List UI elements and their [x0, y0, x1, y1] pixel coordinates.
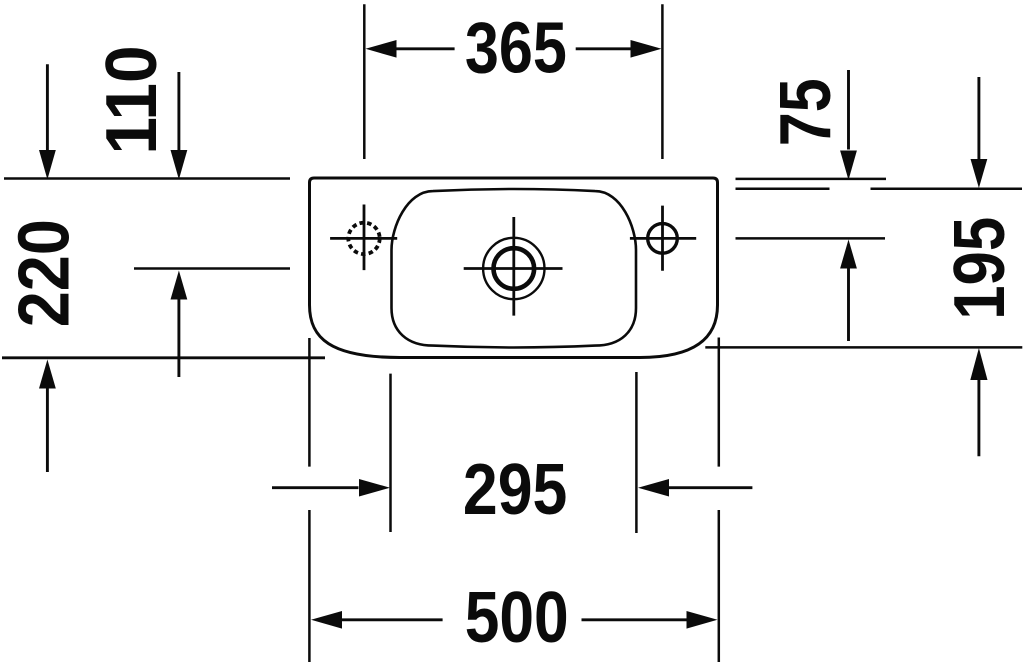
svg-text:75: 75: [767, 78, 847, 146]
svg-text:195: 195: [939, 217, 1020, 320]
svg-text:500: 500: [465, 578, 569, 658]
svg-text:220: 220: [4, 219, 85, 327]
svg-text:110: 110: [91, 45, 171, 154]
svg-text:295: 295: [463, 450, 567, 530]
svg-text:365: 365: [465, 9, 567, 89]
